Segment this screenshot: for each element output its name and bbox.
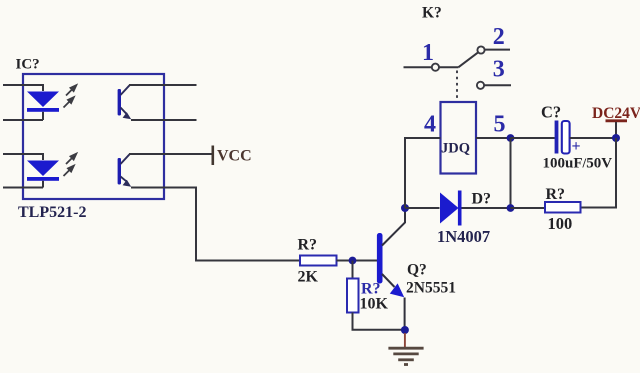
label D? bbox=[472, 191, 492, 208]
capacitor C? bbox=[511, 121, 617, 154]
wire LED1 anode bbox=[3, 85, 43, 91]
wire 2K to base bbox=[337, 260, 378, 262]
svg-text:2N5551: 2N5551 bbox=[406, 280, 456, 297]
svg-text:R?: R? bbox=[298, 237, 318, 254]
wire pin5 to node5 bbox=[476, 137, 511, 139]
node DC24V junction bbox=[612, 134, 620, 142]
svg-text:K?: K? bbox=[422, 5, 442, 22]
svg-text:C?: C? bbox=[541, 103, 561, 122]
wire Q1a emitter stub bbox=[131, 119, 197, 121]
wire node to R-10K bbox=[352, 261, 354, 279]
diode D? 1N4007 bbox=[440, 191, 462, 226]
wire node5 down to diode row bbox=[510, 138, 512, 208]
wire Q1b emitter to R-2K bbox=[131, 188, 300, 261]
photon arrows LED1 bbox=[64, 85, 77, 107]
phototransistor Q1a (upper) bbox=[118, 85, 132, 119]
transistor Q1 2N5551 bbox=[377, 208, 405, 330]
svg-text:2: 2 bbox=[493, 24, 505, 50]
label K? bbox=[422, 5, 442, 22]
label C? bbox=[541, 103, 561, 122]
svg-text:Q?: Q? bbox=[407, 262, 427, 279]
wire diode cathode to node bbox=[462, 207, 511, 209]
wire Q1b collector to VCC bbox=[129, 153, 212, 155]
wire LED1 cathode bbox=[3, 119, 43, 121]
wire Q1a collector stub bbox=[129, 84, 197, 86]
label IC? bbox=[16, 57, 40, 73]
svg-text:5: 5 bbox=[494, 112, 506, 138]
svg-text:4: 4 bbox=[424, 112, 436, 138]
node diode-R100 junction bbox=[507, 204, 515, 212]
power terminal DC24V bbox=[592, 105, 640, 138]
svg-text:D?: D? bbox=[472, 191, 492, 208]
resistor R1 100 bbox=[545, 202, 581, 213]
pin number 1 bbox=[422, 40, 434, 66]
value 2N5551 bbox=[406, 280, 456, 297]
svg-text:IC?: IC? bbox=[16, 57, 40, 73]
svg-text:+: + bbox=[572, 138, 581, 155]
pin number 2 bbox=[493, 24, 505, 50]
svg-text:1: 1 bbox=[422, 40, 434, 66]
svg-text:R?: R? bbox=[546, 186, 566, 203]
value 1N4007 bbox=[437, 227, 490, 246]
LED D1b (lower photodiode) bbox=[27, 161, 59, 188]
svg-text:2K: 2K bbox=[298, 269, 319, 286]
value 10K bbox=[360, 296, 389, 313]
svg-text:3: 3 bbox=[493, 57, 505, 83]
node collector-diode junction bbox=[401, 204, 409, 212]
wire dotted actuator link bbox=[456, 71, 458, 102]
svg-text:100: 100 bbox=[548, 214, 573, 233]
svg-text:JDQ: JDQ bbox=[441, 141, 470, 157]
wire LED2 anode bbox=[3, 154, 43, 160]
pin number 4 bbox=[424, 112, 436, 138]
label TLP521-2 bbox=[18, 204, 86, 221]
svg-text:VCC: VCC bbox=[217, 148, 252, 165]
svg-text:10K: 10K bbox=[360, 296, 389, 313]
wire pin4 bbox=[405, 137, 441, 139]
wire LED2 cathode bbox=[3, 187, 43, 189]
wire diode anode bbox=[405, 207, 440, 209]
svg-text:1N4007: 1N4007 bbox=[437, 227, 490, 246]
resistor R3 10K bbox=[347, 279, 359, 313]
node emitter-ground junction bbox=[401, 326, 409, 334]
polarity + bbox=[572, 138, 581, 155]
photon arrows LED2 bbox=[64, 154, 77, 176]
svg-text:100uF/50V: 100uF/50V bbox=[543, 156, 613, 172]
ground bbox=[388, 333, 423, 365]
relay coil JDQ bbox=[441, 102, 477, 174]
wire 10K to emitter node bbox=[353, 313, 405, 330]
phototransistor Q1b (lower) bbox=[118, 154, 132, 187]
wire diode row to R100 bbox=[511, 207, 546, 209]
label R? (100) bbox=[546, 186, 566, 203]
label R? (10K) bbox=[361, 281, 381, 298]
pin number 3 bbox=[493, 57, 505, 83]
pin number 5 bbox=[494, 112, 506, 138]
power terminal VCC bbox=[213, 146, 252, 166]
wire right rail down bbox=[581, 138, 617, 208]
label Q? bbox=[407, 262, 427, 279]
LED D1a (upper photodiode) bbox=[27, 92, 59, 121]
resistor R2 2K bbox=[300, 256, 337, 266]
svg-text:TLP521-2: TLP521-2 bbox=[18, 204, 86, 221]
relay contact K? bbox=[404, 46, 512, 89]
value 100uF/50V bbox=[543, 156, 613, 172]
label JDQ bbox=[441, 141, 470, 157]
value 2K bbox=[298, 269, 319, 286]
node base junction bbox=[349, 257, 357, 265]
wire left rail (collector to relay pin4) bbox=[405, 138, 441, 208]
op-amp U1 optocoupler body TLP521-2 bbox=[23, 74, 164, 199]
value 100 bbox=[548, 214, 573, 233]
label R? (2K) bbox=[298, 237, 318, 254]
node 5 junction bbox=[507, 134, 515, 142]
